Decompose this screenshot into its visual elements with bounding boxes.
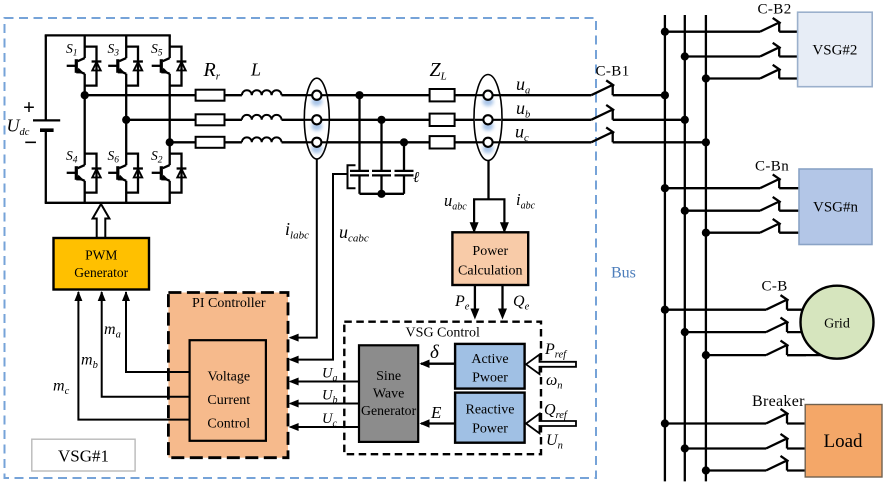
arrow i_labc into PI controller xyxy=(289,334,299,342)
node capacitor tap phase b xyxy=(377,116,385,124)
inductor L phase a xyxy=(242,90,282,95)
wire phase a from bridge to resistor xyxy=(85,94,196,96)
breaker C-B2 phase 1 xyxy=(760,18,798,32)
node C-B1 phase a to bus xyxy=(661,91,669,99)
wire E Reactive Power to Sine Wave Generator xyxy=(421,422,455,424)
Load box xyxy=(805,405,882,478)
VSG Control dashed box xyxy=(344,322,541,455)
wire delta Active Power to Sine Wave Generator xyxy=(421,363,455,365)
wire capacitor common rail xyxy=(360,193,405,195)
wire mc from controller to PWM xyxy=(78,292,189,420)
IGBT S3 with antiparallel diode xyxy=(108,41,143,86)
svg-text:Reactive: Reactive xyxy=(466,403,515,418)
svg-text:VSG#n: VSG#n xyxy=(813,200,859,216)
wire phase c resistor to inductor xyxy=(225,141,242,143)
wire phase c ZL to breaker C-B1 xyxy=(455,141,592,143)
Active Power box xyxy=(455,344,524,389)
wire C-B2 phase 2 xyxy=(685,55,760,57)
breaker C-B phase 2 xyxy=(766,318,806,333)
breaker C-Bn phase 3 xyxy=(760,219,799,233)
wire Pe from Power Calculation to VSG control xyxy=(474,285,476,312)
svg-text:Voltage: Voltage xyxy=(208,370,251,385)
IGBT S2 with antiparallel diode xyxy=(151,148,186,193)
wire from voltage sensor down xyxy=(487,160,489,199)
svg-text:Generator: Generator xyxy=(74,265,128,280)
svg-text:VSG#2: VSG#2 xyxy=(812,43,857,59)
wire bridge top rail xyxy=(45,34,171,36)
Grid circle xyxy=(801,286,874,359)
wire phase a ZL to breaker C-B1 xyxy=(455,94,592,96)
node C-Bn phase 1 xyxy=(661,184,669,192)
arrow u_cabc into PI controller xyxy=(289,356,299,364)
VSG#1 label box xyxy=(32,439,135,471)
capacitor phase b xyxy=(372,120,391,194)
wire ma from controller to PWM xyxy=(126,292,190,372)
svg-text:δ: δ xyxy=(430,342,440,363)
breaker Breaker phase 1 xyxy=(766,409,806,424)
node C-B phase 1 xyxy=(661,306,669,314)
svg-text:Power: Power xyxy=(472,422,508,437)
wire phase b inductor to ZL xyxy=(282,119,430,121)
svg-text:+: + xyxy=(23,95,35,119)
svg-text:C-Bn: C-Bn xyxy=(755,159,789,175)
wire phase c from bridge to resistor xyxy=(170,141,196,143)
svg-text:Pwoer: Pwoer xyxy=(472,371,508,386)
bus line 1 xyxy=(664,15,666,481)
breaker C-B phase 3 xyxy=(766,341,806,356)
arrow Ua xyxy=(289,378,299,386)
wire phase b resistor to inductor xyxy=(225,119,242,121)
wire phase b from bridge to resistor xyxy=(126,119,195,121)
svg-text:C-B2: C-B2 xyxy=(758,2,792,18)
svg-text:Sine: Sine xyxy=(376,369,401,384)
node C-B phase 2 xyxy=(681,328,689,336)
node Breaker phase 2 xyxy=(681,444,689,452)
inductor L phase c xyxy=(242,137,282,142)
resistor Rr phase b xyxy=(196,114,225,125)
svg-text:C-B: C-B xyxy=(762,279,788,295)
capacitor phase c xyxy=(395,142,414,194)
breaker C-Bn phase 1 xyxy=(760,174,799,188)
arrow E xyxy=(420,419,430,428)
voltage sensor ellipse u_abc xyxy=(474,75,502,161)
svg-text:Wave: Wave xyxy=(373,387,405,402)
arrow Qe xyxy=(498,309,507,320)
arrow mb xyxy=(98,291,106,301)
wire phase a inductor to ZL xyxy=(282,94,430,96)
wire phase a resistor to inductor xyxy=(225,94,242,96)
svg-text:PI Controller: PI Controller xyxy=(192,296,266,311)
breaker C-B2 phase 2 xyxy=(760,43,798,57)
node C-Bn phase 2 xyxy=(681,207,689,215)
node phase c tap on leg 3 xyxy=(166,138,174,146)
block arrow PWM to inverter xyxy=(93,204,110,238)
wire C-B2 phase 3 xyxy=(706,77,760,79)
node Breaker phase 1 xyxy=(661,419,669,427)
breaker C-B1 phase a xyxy=(591,80,665,95)
wire C-B2 phase 1 xyxy=(665,31,760,33)
wire i_labc from current sensor xyxy=(291,159,317,338)
Sine Wave Generator box xyxy=(359,345,418,442)
wire Breaker phase 3 xyxy=(706,469,766,471)
wire Uc Sine Wave Generator to PI controller xyxy=(291,426,360,428)
wire C-Bn phase 3 xyxy=(706,232,760,234)
wire Breaker phase 2 xyxy=(685,447,766,449)
svg-text:Active: Active xyxy=(471,352,508,367)
node C-B phase 3 xyxy=(702,351,710,359)
resistor Rr phase a xyxy=(196,90,225,101)
impedance ZL phase b xyxy=(430,114,455,126)
IGBT S1 with antiparallel diode xyxy=(66,41,101,86)
wire grid phase 3 extension xyxy=(787,354,822,356)
wire inverter leg 3 xyxy=(169,35,171,202)
inductor L phase b xyxy=(242,115,282,120)
arrow Uc xyxy=(289,423,299,431)
svg-text:Generator: Generator xyxy=(361,403,417,418)
Voltage Current Control box xyxy=(190,340,266,441)
node capacitor tap phase c xyxy=(400,138,408,146)
current sensor ellipse i_labc xyxy=(304,78,329,159)
node C-B1 phase b to bus xyxy=(681,116,689,124)
node Breaker phase 3 xyxy=(702,466,710,474)
IGBT S6 with antiparallel diode xyxy=(108,148,143,193)
resistor Rr phase c xyxy=(196,137,225,148)
svg-text:Power: Power xyxy=(472,244,508,259)
DC source Udc battery xyxy=(23,35,60,202)
bus line 2 xyxy=(684,15,686,481)
wire phase b ZL to breaker C-B1 xyxy=(455,119,592,121)
block arrow Pref wn input xyxy=(526,355,576,375)
svg-text:L: L xyxy=(250,59,261,79)
wire C-Bn phase 1 xyxy=(665,187,760,189)
node C-B2 phase 3 xyxy=(702,74,710,82)
svg-text:VSG Control: VSG Control xyxy=(406,326,480,341)
node capacitor tap phase a xyxy=(355,91,363,99)
wire measurement fork xyxy=(474,199,504,232)
arrow delta xyxy=(420,359,430,368)
wire inverter leg 1 xyxy=(84,35,86,202)
wire C-B phase 3 xyxy=(706,354,766,356)
node C-B2 phase 2 xyxy=(681,52,689,60)
node C-B1 phase c to bus xyxy=(702,138,710,146)
impedance ZL phase c xyxy=(430,136,455,148)
wire phase c inductor to ZL xyxy=(282,141,430,143)
wire Breaker phase 1 xyxy=(665,422,766,424)
VSG#n box xyxy=(799,169,872,245)
wire C-B phase 2 xyxy=(685,331,766,333)
arrow ma xyxy=(122,291,130,301)
wire u_cabc tap xyxy=(291,174,348,360)
IGBT S4 with antiparallel diode xyxy=(66,148,101,193)
svg-text:E: E xyxy=(430,403,442,422)
svg-text:Current: Current xyxy=(207,393,250,408)
breaker C-Bn phase 2 xyxy=(760,197,799,211)
PWM Generator box xyxy=(54,238,150,290)
svg-text:Control: Control xyxy=(207,417,250,432)
bus line 3 xyxy=(705,15,707,481)
VSG#1 system boundary dashed box xyxy=(5,18,597,478)
breaker Breaker phase 3 xyxy=(766,456,806,471)
node phase a tap on leg 1 xyxy=(81,91,89,99)
capacitor phase a xyxy=(350,95,369,194)
wire Qe from Power Calculation to VSG control xyxy=(501,285,503,312)
block arrow Qref Un input xyxy=(526,414,576,434)
wire mb from controller to PWM xyxy=(102,292,190,397)
svg-text:C-B1: C-B1 xyxy=(596,63,630,79)
VSG#2 box xyxy=(798,12,873,87)
node C-Bn phase 3 xyxy=(702,229,710,237)
wire Ub Sine Wave Generator to PI controller xyxy=(291,403,360,405)
arrow i_abc into Power Calculation xyxy=(500,222,509,233)
svg-text:Grid: Grid xyxy=(824,317,850,332)
breaker C-B2 phase 3 xyxy=(760,65,798,79)
voltage tap bracket u_cabc xyxy=(348,165,356,188)
svg-text:ℓ: ℓ xyxy=(413,170,419,186)
svg-text:PWM: PWM xyxy=(85,248,117,263)
breaker C-B phase 1 xyxy=(766,295,806,310)
breaker C-B1 phase b xyxy=(591,105,685,120)
node capacitor common xyxy=(377,190,385,198)
svg-text:Breaker: Breaker xyxy=(752,393,805,410)
svg-text:VSG#1: VSG#1 xyxy=(58,447,109,466)
Reactive Power box xyxy=(455,393,524,443)
impedance ZL phase a xyxy=(430,89,455,101)
IGBT S5 with antiparallel diode xyxy=(151,41,186,86)
PI Controller dashed box xyxy=(168,293,288,458)
svg-text:Load: Load xyxy=(823,431,863,452)
arrow mc xyxy=(74,291,82,301)
arrow Ub xyxy=(289,400,299,408)
wire C-Bn phase 2 xyxy=(685,210,760,212)
wire inverter leg 2 xyxy=(125,35,127,202)
node C-B2 phase 1 xyxy=(661,28,669,36)
wire Ua Sine Wave Generator to PI controller xyxy=(291,381,360,383)
Power Calculation box xyxy=(452,232,528,285)
breaker C-B1 phase c xyxy=(591,127,706,142)
wire bridge bottom rail xyxy=(45,202,171,204)
svg-text:Bus: Bus xyxy=(611,265,636,282)
wire C-B phase 1 xyxy=(665,309,766,311)
arrow Pe xyxy=(470,309,479,320)
arrow u_abc into Power Calculation xyxy=(470,222,479,233)
node phase b tap on leg 2 xyxy=(122,116,130,124)
svg-text:Calculation: Calculation xyxy=(458,264,523,279)
breaker Breaker phase 2 xyxy=(766,434,806,449)
